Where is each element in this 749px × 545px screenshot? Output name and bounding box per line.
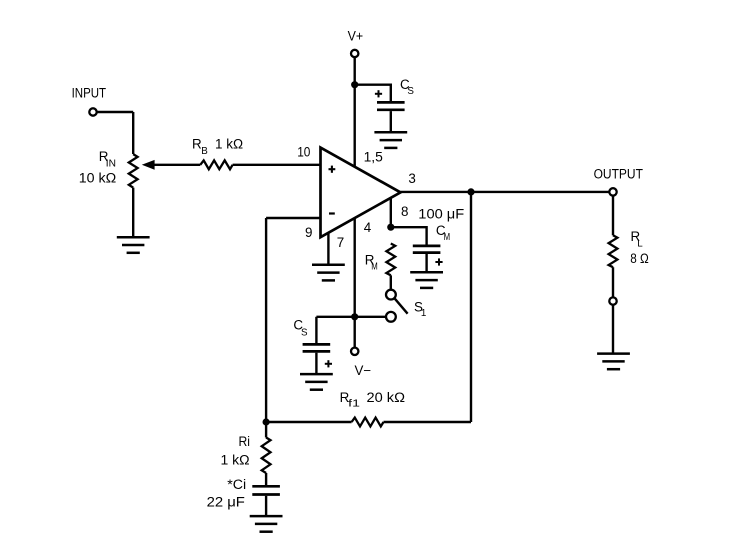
wire RB to op-amp + input (pin 10) <box>233 164 321 166</box>
wire pin 8 down <box>390 197 392 227</box>
ground under pin 7 <box>312 265 345 281</box>
resistor RM <box>386 244 395 276</box>
junction pin4 / V- / CS / S1 <box>351 313 358 320</box>
wire pin 7 down <box>327 233 329 265</box>
input terminal <box>89 108 96 115</box>
ground under RIN <box>117 237 150 253</box>
plus marker CS bottom <box>325 360 332 367</box>
svg-text:L: L <box>637 239 643 250</box>
label CS (top) <box>400 77 414 97</box>
junction V+ / CS <box>351 81 358 88</box>
svg-text:M: M <box>371 261 378 272</box>
wire output terminal to RL <box>612 196 614 235</box>
svg-text:3: 3 <box>408 171 415 186</box>
wiper arrow into RIN <box>142 160 155 170</box>
svg-text:100 μF: 100 μF <box>418 207 464 222</box>
svg-text:INPUT: INPUT <box>72 85 107 100</box>
resistor RL <box>609 235 618 267</box>
wire feedback left vertical <box>265 218 267 422</box>
V- terminal <box>351 348 358 355</box>
resistor Rf1 <box>352 418 384 427</box>
svg-text:22 μF: 22 μF <box>207 495 245 510</box>
wire input down to RIN <box>132 112 134 154</box>
svg-text:10: 10 <box>297 144 310 159</box>
label CM <box>436 223 450 243</box>
svg-text:4: 4 <box>364 220 372 235</box>
svg-text:1,5: 1,5 <box>364 149 383 164</box>
wire CM to ground <box>425 254 427 272</box>
wire pin 4 down <box>354 218 356 317</box>
wire input horizontal <box>97 111 133 113</box>
wire CS bottom / junction / switch <box>316 316 385 318</box>
wire junction to Rf1 <box>266 421 352 423</box>
svg-text:f1: f1 <box>348 399 360 410</box>
wire V+ down to op-amp top (pins 1,5) <box>354 57 356 167</box>
plus marker CM <box>435 258 442 265</box>
RL bottom terminal <box>609 297 616 304</box>
ground under CM <box>410 272 443 288</box>
plus marker CS top <box>375 90 382 97</box>
resistor RIN (potentiometer) <box>129 154 138 188</box>
label RIN <box>99 149 116 170</box>
svg-text:9: 9 <box>305 225 312 240</box>
svg-text:1 kΩ: 1 kΩ <box>215 137 243 152</box>
svg-text:Ri: Ri <box>239 434 251 449</box>
wire terminal to ground <box>612 305 614 354</box>
wire RIN to ground <box>132 188 134 238</box>
capacitor CS bottom plates <box>303 344 331 351</box>
wire minus input left (pin 9) <box>266 217 320 219</box>
svg-text:1: 1 <box>421 308 426 319</box>
switch S1 top contact <box>386 290 396 300</box>
capacitor Ci plates <box>252 486 280 494</box>
resistor Ri <box>262 438 271 474</box>
svg-text:8: 8 <box>401 204 408 219</box>
svg-text:1 kΩ: 1 kΩ <box>221 452 250 467</box>
label CS (bottom) <box>293 318 308 339</box>
wire Rf1 to right vertical <box>384 421 472 423</box>
junction output / feedback <box>467 188 474 195</box>
ground under RL <box>597 354 630 370</box>
wire Ci to ground <box>265 496 267 516</box>
resistor RB <box>200 160 232 169</box>
svg-text:M: M <box>444 232 451 243</box>
svg-text:V−: V− <box>355 363 372 378</box>
wire RL to bottom terminal <box>612 267 614 297</box>
wire RM to switch <box>390 275 392 290</box>
svg-text:10 kΩ: 10 kΩ <box>79 171 116 186</box>
svg-text:IN: IN <box>106 158 116 169</box>
wire arrow to RB <box>154 164 201 166</box>
label Rf1 <box>340 390 360 410</box>
output terminal <box>609 188 616 195</box>
op-amp triangle <box>321 148 401 238</box>
op-amp plus input marker <box>329 166 336 173</box>
svg-text:OUTPUT: OUTPUT <box>594 167 643 182</box>
op-amp minus input marker <box>329 212 335 214</box>
wire output from apex <box>401 191 610 193</box>
svg-text:*Ci: *Ci <box>227 477 246 492</box>
svg-text:S: S <box>407 86 414 97</box>
svg-text:20 kΩ: 20 kΩ <box>367 390 406 405</box>
wire CS to ground <box>390 111 392 132</box>
switch S1 lever <box>394 298 407 314</box>
capacitor CS top plates <box>377 102 405 109</box>
svg-text:B: B <box>201 146 208 157</box>
junction pin8 / RM / CM <box>387 224 394 231</box>
label S1 <box>414 300 426 320</box>
wire CS bottom to ground <box>315 353 317 374</box>
label RL <box>631 229 644 250</box>
V+ terminal <box>351 50 358 57</box>
wire down to CS bottom cap <box>315 317 317 343</box>
ground under CS top <box>374 132 407 148</box>
ground under CS bottom <box>300 374 333 390</box>
switch S1 bottom contact <box>386 312 396 322</box>
svg-text:V+: V+ <box>348 29 364 44</box>
wire to CS top <box>355 85 391 102</box>
wire feedback right vertical <box>470 192 472 422</box>
wire Ri to Ci <box>265 473 267 485</box>
svg-text:7: 7 <box>337 235 344 250</box>
junction feedback / Ri <box>263 418 270 425</box>
label RB <box>192 137 208 158</box>
label RM <box>365 252 378 272</box>
wire junction to V- terminal <box>354 317 356 348</box>
wire Ri top lead <box>265 422 267 438</box>
ground under Ci <box>250 516 283 532</box>
svg-text:S: S <box>301 328 308 339</box>
capacitor CM plates <box>413 246 441 253</box>
wire junction to CM <box>391 227 427 245</box>
svg-text:8 Ω: 8 Ω <box>630 251 649 266</box>
